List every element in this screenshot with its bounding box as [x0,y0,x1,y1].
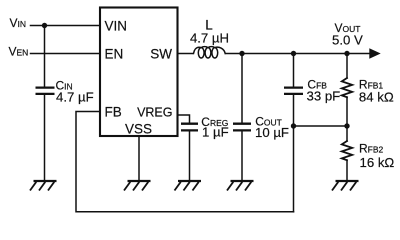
svg-text:10 µF: 10 µF [255,125,289,140]
svg-text:SW: SW [150,47,172,62]
svg-text:33 pF: 33 pF [307,88,341,103]
svg-text:RFB2: RFB2 [359,141,384,155]
svg-text:4.7 µF: 4.7 µF [56,89,94,104]
svg-text:VIN: VIN [10,16,27,30]
svg-text:VIN: VIN [105,19,128,34]
svg-text:EN: EN [105,47,124,62]
svg-text:VEN: VEN [9,45,29,59]
svg-text:1 µF: 1 µF [202,124,229,139]
svg-text:16 kΩ: 16 kΩ [360,155,395,170]
svg-text:FB: FB [105,104,122,119]
svg-text:4.7 µH: 4.7 µH [190,31,229,46]
svg-text:VSS: VSS [125,122,152,137]
svg-text:84 kΩ: 84 kΩ [359,90,394,105]
svg-text:5.0 V: 5.0 V [332,33,363,48]
svg-text:VREG: VREG [137,105,172,119]
